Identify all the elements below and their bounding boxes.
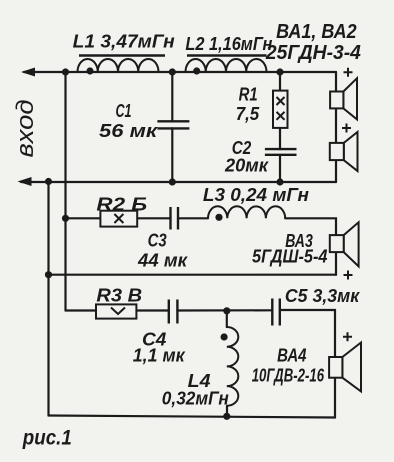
svg-text:C3: C3 [148,231,167,251]
wire rail3 [49,274,337,276]
svg-text:L1 3,47мГн: L1 3,47мГн [73,32,175,52]
resistor R2 [100,211,137,227]
wire R3 row [66,309,97,311]
wire L4 top lead [226,311,228,327]
wire C1 branch top [171,72,173,121]
wire R2 to C3 [137,217,170,219]
svg-text:20мк: 20мк [224,156,269,176]
L1 polarity dot [86,67,93,74]
svg-text:56 мк: 56 мк [99,121,158,141]
svg-text:C5 3,3мк: C5 3,3мк [285,286,360,306]
wire C3 to L3 [178,217,208,219]
svg-text:C1: C1 [116,101,132,121]
svg-text:0,32мГн: 0,32мГн [162,389,229,409]
svg-text:44 мк: 44 мк [137,251,188,271]
L3 polarity dot [215,214,222,221]
svg-text:рис.1: рис.1 [22,427,72,450]
speaker BA2 [330,132,358,171]
wire L4 bottom lead [226,406,228,417]
wire bottom rail [49,416,336,418]
wire C2 to rail2 [279,155,281,182]
wire BA4 to bottom rail [334,378,336,418]
node B/rail3 [45,271,52,278]
speaker BA4 [329,343,361,392]
wire BA3 to rail3 [335,252,337,275]
wire speaker column top section [335,72,337,182]
node A/R2 [62,215,69,222]
L2 polarity dot [193,67,200,74]
svg-text:ВА1, ВА2: ВА1, ВА2 [276,21,357,43]
capacitor C1 [157,121,189,128]
resistor R3 [96,304,136,318]
wire rail1 top [24,71,336,73]
capacitor C2 [265,149,297,155]
L4 polarity dot [221,333,228,340]
wire C4 to L4 node [177,309,272,311]
svg-text:L2 1,16мГн: L2 1,16мГн [185,34,272,54]
capacitor C4 [169,300,178,324]
inductor L2 [186,56,267,73]
speaker BA3 [330,222,359,266]
plus BA1 [344,68,353,77]
node rail1/R1 [276,68,283,75]
svg-text:7,5: 7,5 [236,104,260,124]
wire vertical B from rail2 to bottom rail [47,182,49,416]
wire C1 to rail2 [171,128,173,182]
node rail2/C2 [276,178,283,185]
svg-text:R3 В: R3 В [96,286,142,306]
inductor L1 [78,56,166,73]
input arrow bottom [18,177,32,186]
svg-text:25ГДН-3-4: 25ГДН-3-4 [265,42,361,64]
plus BA4 [343,332,352,341]
plus BA3 [344,271,353,280]
wire rail2 [21,181,336,183]
svg-text:R1: R1 [239,85,258,105]
svg-text:5ГДШ-5-4: 5ГДШ-5-4 [252,247,328,267]
svg-text:вход: вход [12,100,39,158]
wire R3 to C4 [136,309,168,311]
wire R1 to C2 [279,128,281,149]
svg-text:1,1 мк: 1,1 мк [133,346,186,366]
speaker BA1 [330,78,357,119]
node rail2/B [45,178,52,185]
inductor L4 [227,327,239,406]
inductor L3 [208,206,285,218]
wire vertical A from rail1 to R3 row [64,72,66,311]
node rail1/C1 [169,68,176,75]
svg-text:ВА4: ВА4 [277,346,306,366]
resistor R1 [273,91,288,128]
input arrow top [21,68,35,77]
node R3row/L4 [223,307,230,314]
capacitor C3 [171,207,179,230]
wire R1 branch top [279,72,281,91]
node L4/bottom rail [223,413,230,420]
capacitor C5 [272,299,280,326]
svg-text:L3 0,24 мГн: L3 0,24 мГн [203,185,309,205]
plus BA2 [342,124,351,133]
node rail2/C1 [169,178,176,185]
wire R2 row [66,217,101,219]
svg-text:10ГДВ-2-16: 10ГДВ-2-16 [252,366,325,386]
node rail1/A [62,68,69,75]
wire C5 to BA4 [280,310,335,357]
wire L3 to BA3 [285,218,336,235]
